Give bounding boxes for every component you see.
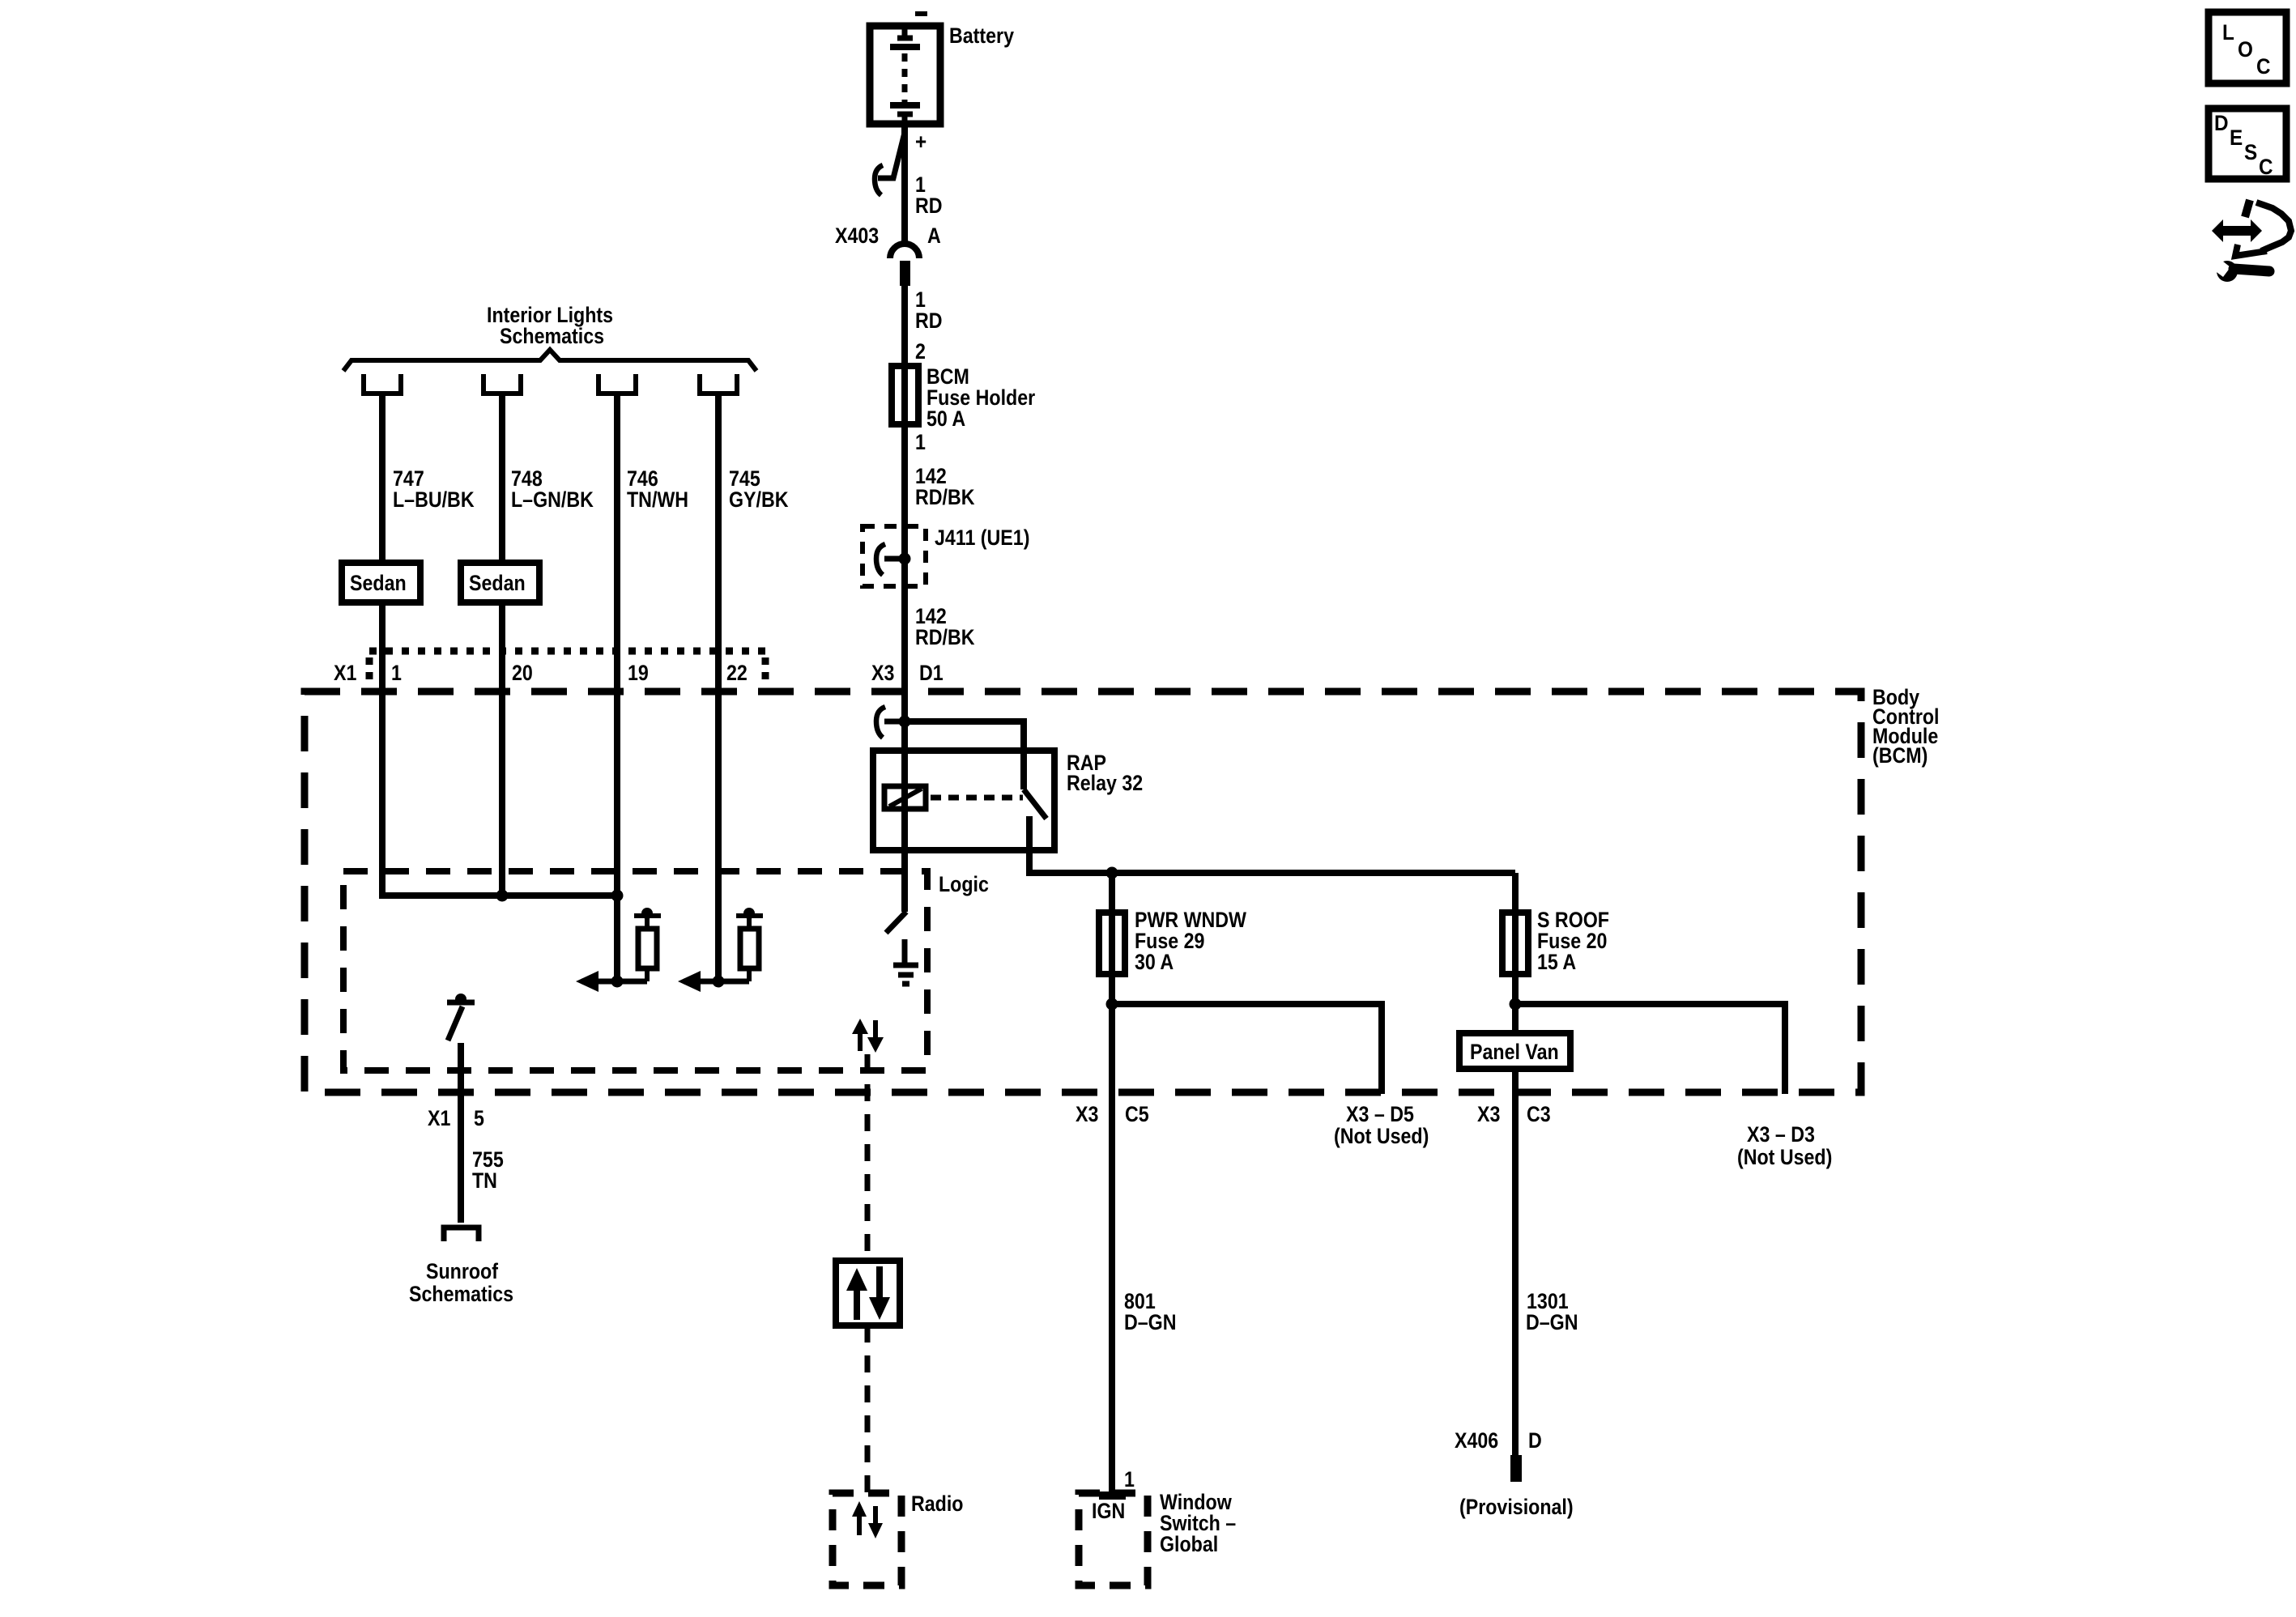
svg-text:50 A: 50 A	[926, 406, 965, 431]
wire J411 to BCM	[901, 586, 908, 721]
svg-text:D–GN: D–GN	[1124, 1310, 1176, 1334]
ground (BCM internal)	[893, 939, 918, 984]
junction node on bus at wire 748	[496, 890, 509, 902]
svg-text:(Not Used): (Not Used)	[1334, 1124, 1429, 1148]
relay coil	[884, 786, 926, 809]
wire arrow line 1 (to interior logic)	[581, 979, 647, 985]
svg-text:Panel Van: Panel Van	[1470, 1040, 1559, 1064]
svg-text:(Not Used): (Not Used)	[1737, 1145, 1832, 1169]
svg-text:X406: X406	[1455, 1428, 1498, 1453]
junction node X3-D1 feed	[899, 716, 911, 728]
junction node wire 746 arrow line	[611, 976, 624, 988]
svg-text:C5: C5	[1125, 1102, 1149, 1126]
svg-text:A: A	[927, 223, 941, 248]
svg-text:Relay 32: Relay 32	[1067, 771, 1143, 795]
svg-text:D: D	[2214, 112, 2229, 135]
wire stub X3-D5	[1112, 1004, 1382, 1094]
svg-text:X3 – D3: X3 – D3	[1747, 1122, 1815, 1147]
svg-text:X1: X1	[334, 661, 356, 685]
svg-text:(Provisional): (Provisional)	[1459, 1495, 1574, 1519]
junction node wire 745 arrow line	[713, 976, 725, 988]
svg-text:22: 22	[726, 661, 748, 685]
wire through fuse	[901, 366, 908, 526]
fusible link at relay feed	[876, 707, 905, 738]
fuse PWR WNDW Fuse 29 30 A	[1099, 913, 1125, 974]
svg-text:J411 (UE1): J411 (UE1)	[935, 526, 1029, 550]
fuse BCM Fuse Holder 50 A	[892, 366, 918, 424]
svg-text:1: 1	[391, 661, 402, 685]
switch logic (coil ground) blade	[886, 912, 906, 933]
relay box RAP Relay 32	[873, 751, 1054, 850]
junction node fuse 29 output	[1106, 998, 1118, 1011]
wire fuse 29 branch	[1109, 873, 1115, 1493]
svg-text:TN: TN	[472, 1168, 497, 1193]
box Window Switch - Global (dashed)	[1079, 1493, 1148, 1585]
connector X403 terminal A	[890, 244, 919, 286]
icon LOC box	[2209, 12, 2286, 83]
svg-text:RD/BK: RD/BK	[915, 485, 975, 509]
svg-text:Logic: Logic	[939, 872, 989, 896]
fuse S ROOF Fuse 20 15 A	[1502, 913, 1528, 974]
relay switch blade	[1024, 789, 1046, 819]
window up/down arrows (logic box)	[852, 1019, 884, 1053]
resistor R2 (pull-up wire 745)	[736, 908, 763, 981]
svg-text:D: D	[1528, 1428, 1542, 1453]
svg-text:Battery: Battery	[949, 23, 1014, 48]
box Body Control Module (BCM) dashed	[305, 691, 1861, 1092]
wire 745	[715, 395, 722, 981]
svg-text:E: E	[2230, 126, 2243, 150]
svg-text:2: 2	[915, 339, 926, 364]
svg-text:15 A: 15 A	[1537, 950, 1576, 974]
svg-text:RD: RD	[915, 194, 943, 218]
svg-text:Sunroof: Sunroof	[426, 1259, 499, 1283]
wire fuse to J411	[901, 526, 908, 586]
svg-text:L–GN/BK: L–GN/BK	[511, 487, 594, 512]
svg-text:Global: Global	[1160, 1532, 1218, 1556]
svg-text:+: +	[915, 130, 926, 154]
tag box Sedan (wire 748)	[461, 563, 539, 602]
arrowhead 2	[678, 971, 701, 992]
wire internal bus (pins 1,20,19)	[382, 602, 617, 896]
svg-text:D–GN: D–GN	[1526, 1310, 1578, 1334]
tag box Panel Van	[1459, 1033, 1570, 1069]
svg-text:C3: C3	[1527, 1102, 1551, 1126]
svg-text:S: S	[2244, 141, 2257, 164]
wire battery positive lead	[901, 124, 908, 242]
svg-text:X3: X3	[1477, 1102, 1500, 1126]
tag box Sedan (wire 747)	[342, 563, 420, 602]
svg-text:O: O	[2238, 38, 2253, 62]
wire stub X3-D3	[1515, 1004, 1785, 1094]
connector (interior lights wire 748)	[483, 374, 521, 394]
icon DESC box	[2209, 109, 2286, 179]
svg-text:19: 19	[628, 661, 649, 685]
battery G_BATT	[870, 26, 940, 124]
svg-text:IGN: IGN	[1092, 1499, 1125, 1523]
box Logic (inner dashed)	[343, 871, 927, 1070]
svg-text:X3 – D5: X3 – D5	[1346, 1102, 1414, 1126]
junction node fuse 20 output	[1510, 998, 1522, 1011]
svg-text:20: 20	[512, 661, 533, 685]
svg-text:Radio: Radio	[911, 1491, 963, 1516]
svg-text:D1: D1	[919, 661, 944, 685]
wire arrow line 2 (to interior logic)	[684, 979, 749, 985]
wire relay switch feed	[905, 721, 1024, 789]
svg-text:1: 1	[1124, 1467, 1135, 1491]
svg-text:RD: RD	[915, 309, 943, 333]
svg-text:X1: X1	[428, 1106, 450, 1130]
brace over interior lights connectors	[343, 350, 756, 371]
wire 746	[614, 395, 620, 981]
svg-text:Sedan: Sedan	[350, 571, 407, 595]
connector (interior lights wire 745)	[700, 374, 737, 394]
svg-text:L: L	[2222, 21, 2234, 45]
dashed data wire to radio	[865, 1054, 871, 1261]
svg-text:(BCM): (BCM)	[1872, 743, 1928, 768]
splice J411 (UE1)	[863, 526, 926, 586]
svg-text:5: 5	[474, 1106, 484, 1130]
connector (interior lights wire 747)	[364, 374, 401, 394]
svg-text:RD/BK: RD/BK	[915, 625, 975, 649]
junction node bus to fuse 29	[1106, 867, 1118, 879]
box Radio (dashed)	[833, 1493, 901, 1585]
wire X403 to fuse	[901, 286, 908, 366]
svg-text:GY/BK: GY/BK	[729, 487, 789, 512]
wire X1-5 to sunroof	[458, 1043, 464, 1223]
icon harness routing (arrow hand with wrench)	[2211, 200, 2291, 282]
battery minus terminal label	[915, 11, 927, 16]
svg-text:X3: X3	[1076, 1102, 1098, 1126]
connector bracket X1 (dotted)	[369, 651, 765, 687]
svg-text:Schematics: Schematics	[500, 324, 604, 348]
resistor R1 (pull-up wire 746)	[634, 908, 661, 981]
node box with up/down arrows	[836, 1261, 900, 1326]
dashed data wire continues	[865, 1326, 871, 1493]
wire relay switch output	[1026, 816, 1515, 873]
switch logic output (to sunroof)	[447, 994, 475, 1040]
terminal X406 (provisional)	[1510, 1455, 1522, 1482]
wire fuse 20 branch	[1512, 873, 1519, 1455]
fusible link at battery	[875, 133, 905, 195]
svg-text:C: C	[2259, 155, 2273, 179]
relay actuation dashed link	[931, 795, 1023, 801]
svg-text:TN/WH: TN/WH	[627, 487, 688, 512]
wire 748	[499, 395, 505, 896]
wire 747	[379, 395, 386, 896]
junction node on bus at wire 746	[611, 890, 624, 902]
svg-text:Schematics: Schematics	[409, 1282, 513, 1306]
wire relay coil feed	[901, 721, 908, 912]
arrowhead 1	[576, 971, 598, 992]
svg-text:X3: X3	[871, 661, 894, 685]
svg-text:C: C	[2256, 55, 2271, 79]
svg-text:30 A: 30 A	[1135, 950, 1174, 974]
connector to Sunroof Schematics	[444, 1228, 479, 1241]
svg-text:L–BU/BK: L–BU/BK	[393, 487, 475, 512]
svg-text:1: 1	[915, 430, 926, 454]
connector (interior lights wire 746)	[598, 374, 636, 394]
svg-text:Sedan: Sedan	[469, 571, 526, 595]
svg-text:X403: X403	[835, 223, 879, 248]
